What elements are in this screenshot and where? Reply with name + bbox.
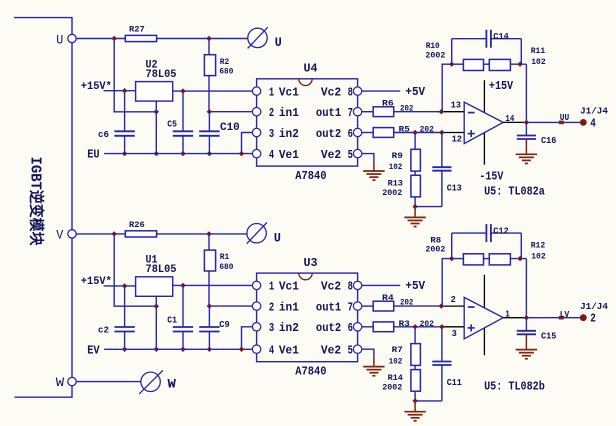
svg-text:out2: out2 <box>316 127 341 141</box>
svg-text:R9: R9 <box>392 151 403 161</box>
svg-text:102: 102 <box>389 162 403 172</box>
svg-text:2002: 2002 <box>382 382 402 392</box>
svg-text:A7840: A7840 <box>295 169 326 183</box>
svg-text:in2: in2 <box>279 321 299 335</box>
svg-text:A7840: A7840 <box>295 365 326 379</box>
svg-text:4: 4 <box>590 116 596 130</box>
svg-text:3: 3 <box>269 321 274 335</box>
svg-text:U: U <box>275 35 282 50</box>
svg-text:1: 1 <box>269 85 274 99</box>
svg-text:R27: R27 <box>129 25 145 35</box>
svg-text:+15V: +15V <box>489 79 514 93</box>
svg-text:8: 8 <box>348 85 353 99</box>
svg-text:out2: out2 <box>316 321 341 335</box>
svg-text:C12: C12 <box>493 227 509 237</box>
svg-text:J1/J4: J1/J4 <box>580 301 608 312</box>
svg-text:1: 1 <box>269 280 274 294</box>
svg-text:R13: R13 <box>388 179 403 189</box>
svg-text:R26: R26 <box>129 220 145 230</box>
svg-text:R6: R6 <box>382 98 394 108</box>
svg-text:out1: out1 <box>316 106 341 120</box>
svg-text:202: 202 <box>420 125 434 135</box>
svg-text:R1: R1 <box>220 252 230 262</box>
svg-text:U3: U3 <box>304 256 318 270</box>
svg-text:C10: C10 <box>220 122 240 134</box>
svg-text:IGBT逆变模块: IGBT逆变模块 <box>27 157 46 247</box>
svg-text:C16: C16 <box>541 136 556 146</box>
svg-text:2002: 2002 <box>382 188 402 198</box>
svg-text:6: 6 <box>348 321 353 335</box>
svg-text:W: W <box>168 376 177 391</box>
svg-text:C14: C14 <box>493 32 509 42</box>
svg-text:78L05: 78L05 <box>146 264 177 276</box>
svg-text:c2: c2 <box>98 326 109 336</box>
svg-text:in1: in1 <box>279 106 299 120</box>
svg-text:C1: C1 <box>167 315 177 325</box>
svg-text:13: 13 <box>451 101 461 111</box>
svg-text:U5: TL082a: U5: TL082a <box>484 184 545 198</box>
svg-text:out1: out1 <box>316 300 341 314</box>
svg-text:102: 102 <box>389 356 403 366</box>
svg-text:R11: R11 <box>531 46 546 56</box>
svg-text:UU: UU <box>560 112 570 123</box>
svg-text:4: 4 <box>269 148 274 162</box>
svg-text:LV: LV <box>560 309 570 320</box>
svg-text:EV: EV <box>87 343 100 357</box>
svg-text:202: 202 <box>400 298 413 308</box>
svg-text:Ve1: Ve1 <box>279 148 299 162</box>
svg-text:J1/J4: J1/J4 <box>580 106 608 117</box>
svg-text:2002: 2002 <box>425 245 445 255</box>
svg-text:3: 3 <box>269 127 274 141</box>
svg-text:R12: R12 <box>531 240 546 250</box>
svg-text:Ve2: Ve2 <box>321 344 341 358</box>
svg-text:Vc2: Vc2 <box>321 280 341 294</box>
svg-text:202: 202 <box>400 103 413 113</box>
svg-text:4: 4 <box>269 344 274 358</box>
svg-text:U4: U4 <box>304 62 318 76</box>
svg-text:R4: R4 <box>382 293 394 303</box>
svg-text:5: 5 <box>348 148 353 162</box>
svg-text:6: 6 <box>348 127 353 141</box>
svg-text:78L05: 78L05 <box>146 69 177 81</box>
svg-text:EU: EU <box>87 148 99 162</box>
svg-text:W: W <box>56 375 65 390</box>
svg-text:8: 8 <box>348 280 353 294</box>
svg-text:U: U <box>274 230 281 245</box>
svg-text:R3: R3 <box>399 319 410 329</box>
svg-text:Ve1: Ve1 <box>279 344 299 358</box>
svg-text:5: 5 <box>348 344 353 358</box>
svg-text:202: 202 <box>420 319 434 329</box>
svg-text:C15: C15 <box>541 331 556 341</box>
svg-text:12: 12 <box>452 135 462 145</box>
svg-text:2: 2 <box>451 295 456 305</box>
svg-text:2: 2 <box>590 312 596 326</box>
svg-text:R5: R5 <box>399 125 410 135</box>
svg-text:7: 7 <box>348 106 353 120</box>
svg-text:+5V: +5V <box>405 279 425 293</box>
svg-text:Vc1: Vc1 <box>279 280 299 294</box>
svg-text:Vc2: Vc2 <box>321 85 341 99</box>
svg-text:R2: R2 <box>220 57 230 67</box>
svg-text:-15V: -15V <box>479 169 504 183</box>
svg-text:V: V <box>56 228 63 243</box>
svg-text:R7: R7 <box>392 345 403 355</box>
svg-text:Ve2: Ve2 <box>321 148 341 162</box>
svg-text:in2: in2 <box>279 127 299 141</box>
svg-text:C11: C11 <box>447 378 463 388</box>
svg-text:in1: in1 <box>279 300 299 314</box>
svg-text:R14: R14 <box>388 373 403 383</box>
svg-text:C5: C5 <box>167 120 177 130</box>
svg-text:+5V: +5V <box>405 85 425 99</box>
svg-text:3: 3 <box>452 329 457 339</box>
svg-text:7: 7 <box>348 300 353 314</box>
svg-text:Vc1: Vc1 <box>279 85 299 99</box>
svg-text:2: 2 <box>269 106 274 120</box>
svg-text:102: 102 <box>531 57 546 67</box>
svg-text:U5: TL082b: U5: TL082b <box>484 380 545 394</box>
svg-text:C9: C9 <box>219 320 229 330</box>
svg-text:2: 2 <box>269 300 274 314</box>
svg-text:C13: C13 <box>447 184 462 194</box>
svg-text:680: 680 <box>219 67 233 77</box>
svg-text:c6: c6 <box>98 130 109 140</box>
svg-text:U: U <box>56 32 63 47</box>
svg-text:2002: 2002 <box>425 50 445 60</box>
svg-text:102: 102 <box>531 251 546 261</box>
svg-text:680: 680 <box>219 262 233 272</box>
